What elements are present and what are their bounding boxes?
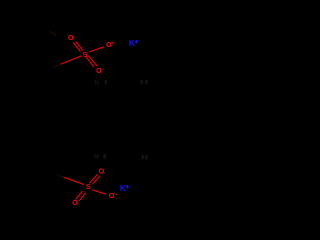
potassium cation K+ (top) [129, 39, 138, 48]
svg-text:S: S [86, 182, 91, 191]
wire: C-S bond carbon half (dark) [53, 64, 61, 67]
svg-text:O: O [99, 166, 105, 175]
wire: C-S bond carbon half (dark) [57, 175, 64, 178]
wire: S=O double bond lower-right line 1 [86, 57, 94, 68]
wire: S=O double bond lower-right line 2 [89, 56, 98, 66]
charge minus on O [112, 42, 114, 43]
svg-text:S: S [83, 50, 88, 59]
charge plus on K [126, 186, 129, 187]
svg-text:O: O [96, 66, 102, 75]
faint NH label (lower) [94, 154, 106, 161]
mesylate anion 2 (bottom) [57, 166, 118, 207]
wire: S=O double bond lower-left line 2 [79, 193, 86, 201]
wire: faint skeleton bond near top-left O [50, 31, 56, 35]
wire: S=O double bond upper-left line 1 [73, 42, 80, 51]
svg-text:K: K [129, 39, 135, 48]
svg-text:O: O [106, 40, 112, 49]
svg-text:N: N [94, 154, 99, 161]
wire: C-S bond sulfur half (red) [64, 177, 84, 184]
faint H glyph (upper right) [141, 80, 148, 85]
svg-text:O: O [68, 33, 74, 42]
wire: S=O double bond upper-left line 2 [76, 42, 83, 51]
svg-text:O: O [109, 191, 115, 200]
svg-text:K: K [120, 184, 126, 193]
potassium cation K+ (bottom) [120, 184, 129, 193]
faint NH label (upper) [94, 79, 107, 86]
faint H glyph (lower right) [142, 155, 148, 160]
mesylate anion 1 (top) [53, 33, 114, 75]
svg-text:N: N [94, 79, 99, 86]
wire: S-O single bond to O minus [92, 190, 106, 194]
wire: C-S bond sulfur half (red) [61, 56, 82, 64]
wire: S-O single bond to O minus [89, 47, 104, 52]
charge minus on O [116, 194, 118, 195]
svg-text:O: O [72, 198, 78, 207]
wire: S=O double bond lower-left line 1 [75, 191, 82, 199]
wire: S=O double bond upper-right line 1 [89, 174, 97, 183]
charge plus on K [135, 41, 138, 42]
wire: S=O double bond upper-right line 2 [93, 176, 100, 185]
